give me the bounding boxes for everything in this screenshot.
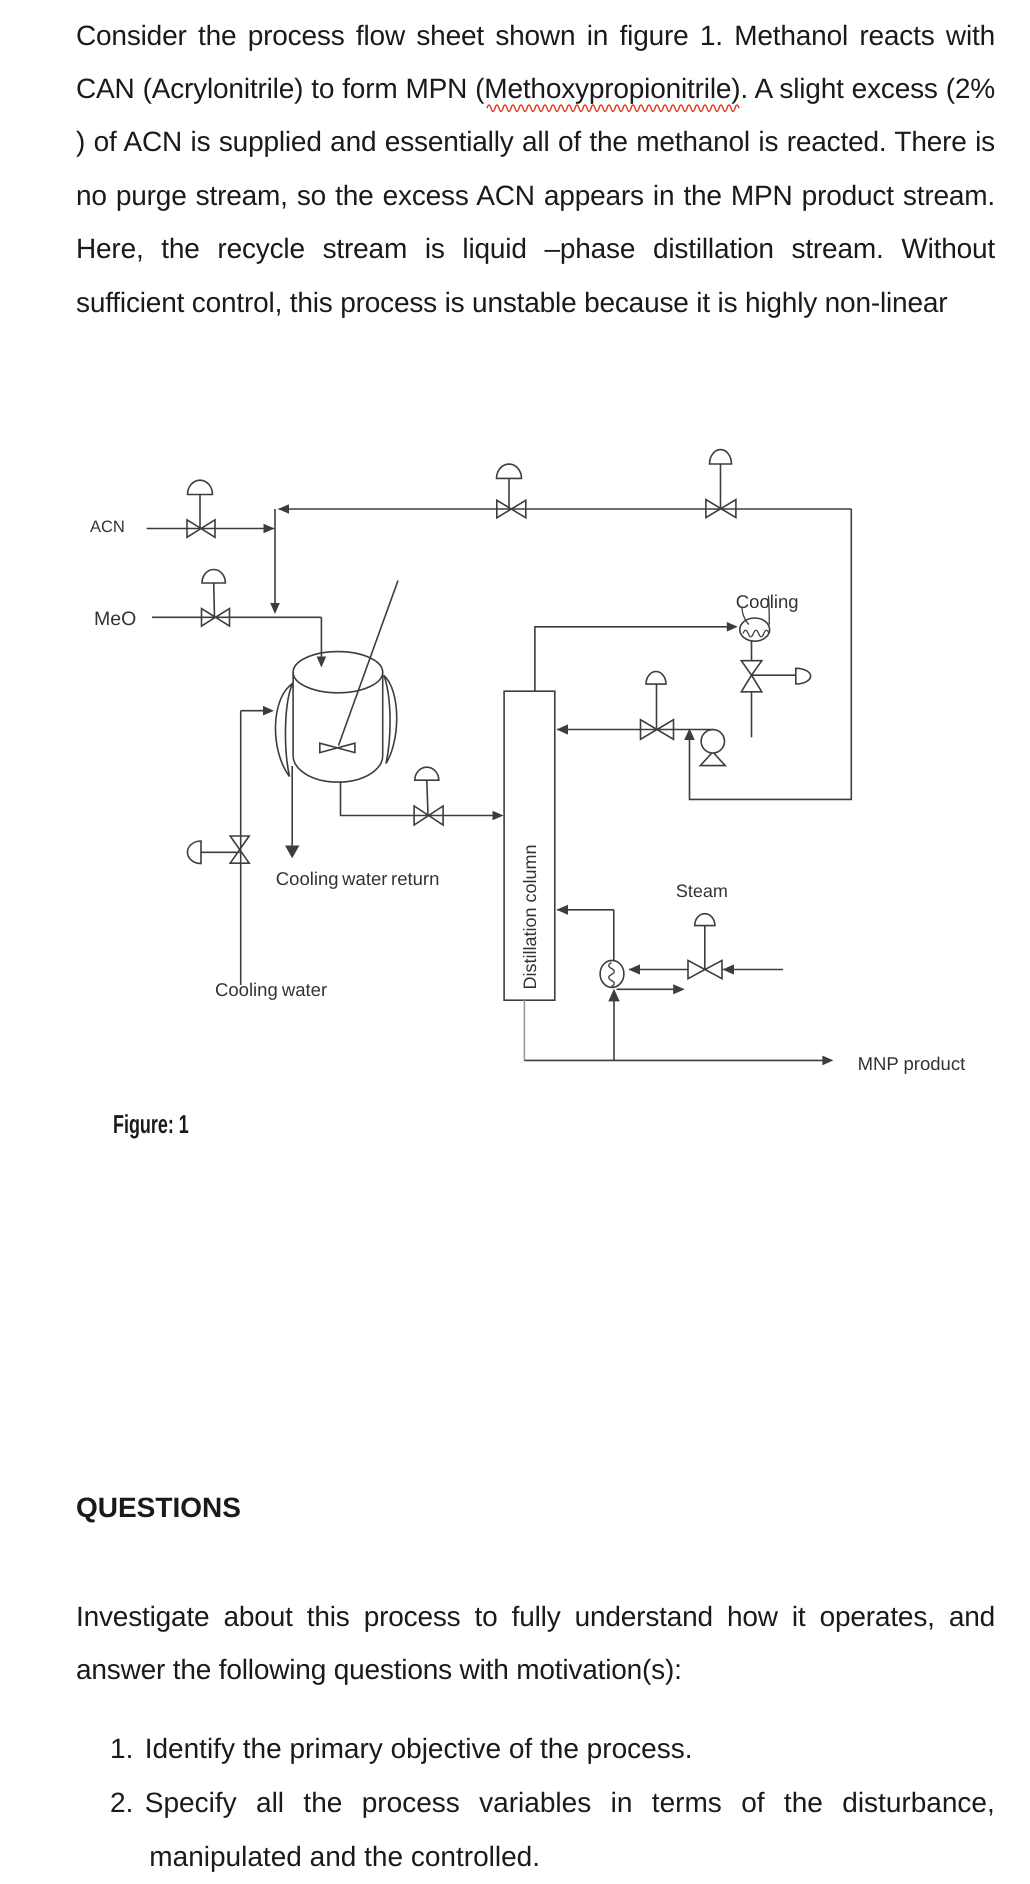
svg-text:Distillation column: Distillation column [520,844,540,989]
